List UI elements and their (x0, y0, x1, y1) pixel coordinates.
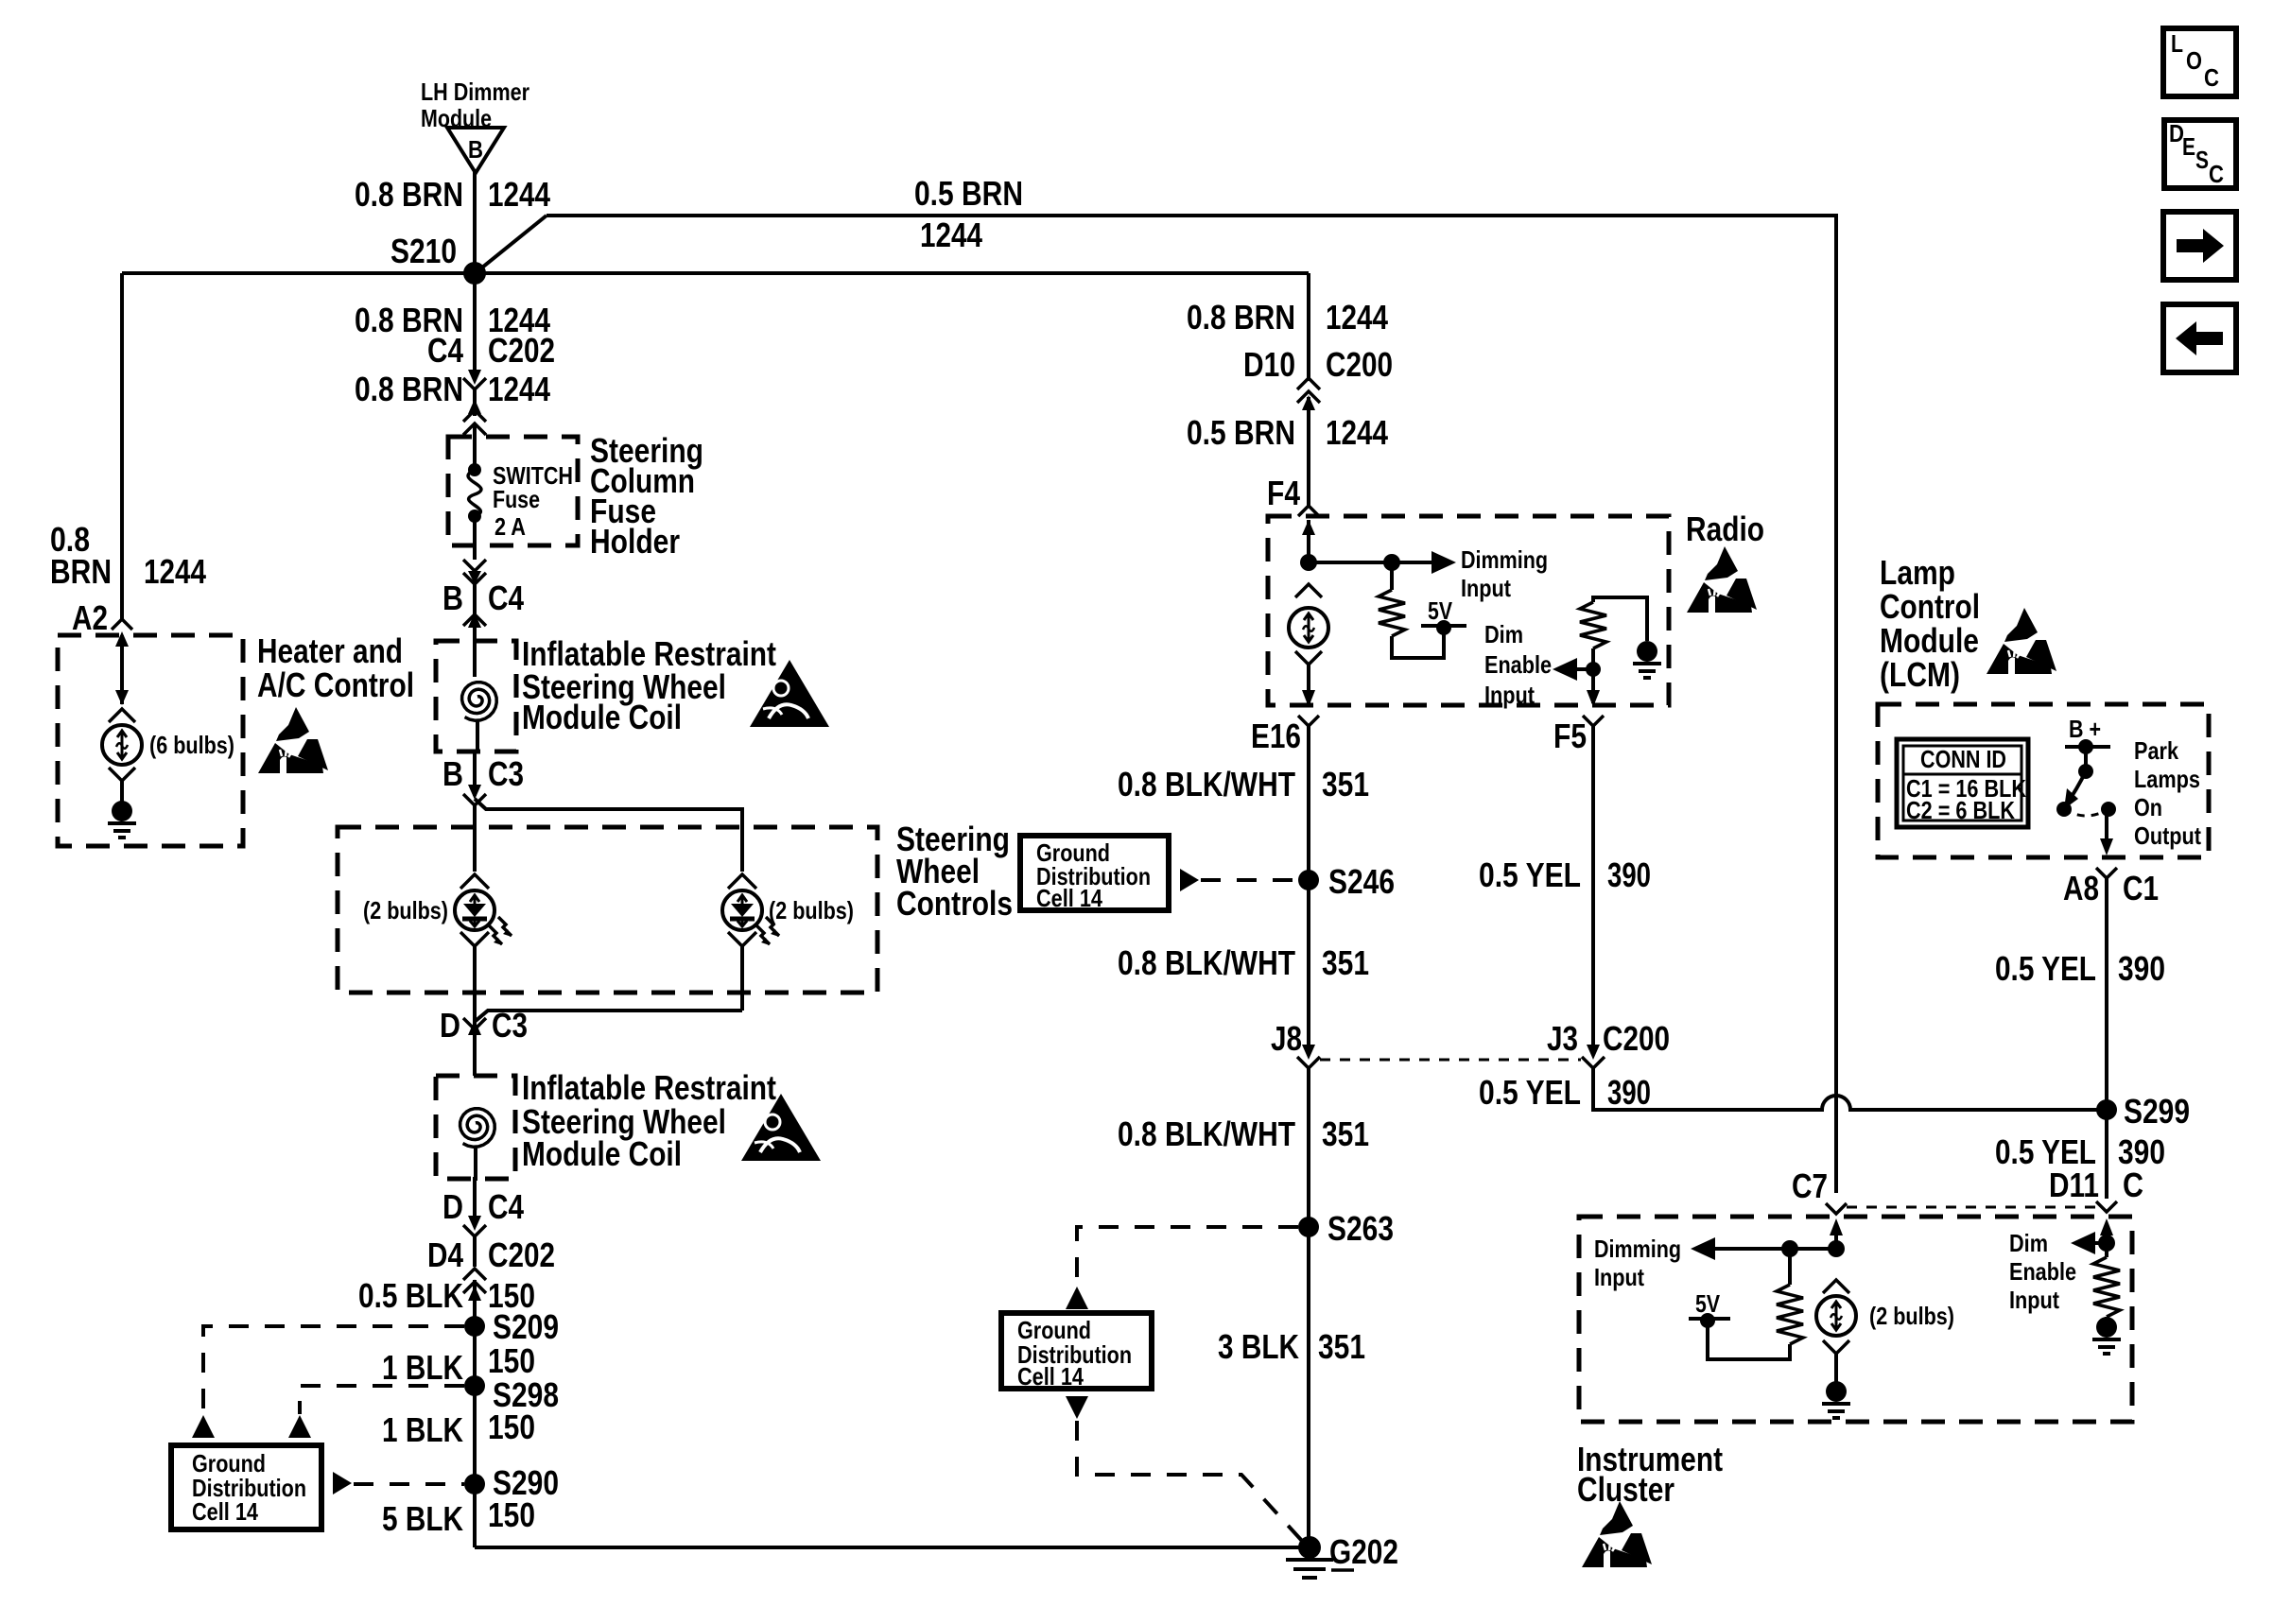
svg-text:B: B (468, 135, 483, 164)
node S290 (464, 1463, 559, 1502)
label 0.5 BRN 1244 (middle) (1187, 413, 1388, 452)
svg-text:D: D (442, 1187, 463, 1226)
svg-text:Lamps: Lamps (2134, 765, 2200, 793)
lamp (6 bulbs) in heater box (102, 690, 234, 803)
lamp right (2 bulbs) (722, 874, 854, 1011)
svg-text:C202: C202 (488, 331, 555, 370)
svg-text:On: On (2134, 793, 2162, 821)
connector J3 / C200 (1547, 1019, 1670, 1068)
connector F4 into radio (1267, 474, 1319, 562)
wire: middle column down from S210 line to radio F4 (1307, 273, 1310, 381)
svg-text:B: B (442, 579, 463, 617)
svg-text:A2: A2 (72, 598, 108, 637)
label 0.8 BLK/WHT 351 (1) (1118, 765, 1369, 803)
label 3 BLK 351 (1218, 1327, 1365, 1366)
svg-text:2 A: 2 A (495, 512, 526, 541)
svg-text:150: 150 (488, 1495, 535, 1534)
svg-text:S299: S299 (2124, 1092, 2190, 1131)
label 0.8 BRN 1244 (top) (355, 175, 550, 214)
dashed lead from S298 to ground distribution (288, 1386, 464, 1438)
connector E16 below radio (1251, 716, 1319, 1049)
svg-text:Dimming: Dimming (1461, 545, 1548, 574)
cluster dimming input arrow (1594, 1235, 1836, 1291)
svg-text:Inflatable Restraint: Inflatable Restraint (522, 1068, 776, 1107)
heater and A/C control (dashed box) (58, 635, 243, 846)
node S210 junction horizontal wire (122, 271, 1309, 275)
svg-text:C3: C3 (492, 1006, 528, 1045)
svg-text:Input: Input (1461, 574, 1511, 602)
label 1 BLK 150 (2) (382, 1408, 535, 1449)
label 0.8 BRN 1244 (middle) (1187, 298, 1388, 337)
connector D / C3 in-line (440, 1006, 528, 1076)
coil spiral 2 (460, 1109, 495, 1148)
svg-text:Enable: Enable (2009, 1257, 2076, 1286)
radio ground (1633, 641, 1661, 678)
svg-text:1244: 1244 (144, 552, 206, 591)
steering column fuse holder (dashed box) (448, 437, 578, 545)
node S210 dot (463, 262, 486, 285)
left arrow box (2163, 304, 2236, 372)
svg-text:Module: Module (421, 104, 492, 132)
connector A2 into heater control (72, 598, 132, 704)
svg-text:L: L (2171, 29, 2183, 58)
svg-text:Control: Control (1880, 587, 1980, 626)
svg-text:1244: 1244 (920, 216, 982, 254)
wire: 0.5 BRN 1244 top line to right then down to C7 (547, 216, 1836, 1193)
svg-text:S246: S246 (1328, 862, 1395, 901)
svg-text:0.5 YEL: 0.5 YEL (1995, 949, 2096, 988)
svg-text:0.8 BRN: 0.8 BRN (355, 370, 463, 408)
ground distribution cell 14 box (middle) (1020, 836, 1169, 912)
cluster pull-up resistor (1708, 1249, 1803, 1359)
svg-text:Enable: Enable (1484, 650, 1552, 679)
svg-text:(2 bulbs): (2 bulbs) (769, 896, 854, 924)
svg-text:B: B (442, 754, 463, 793)
radio 5V supply (1421, 596, 1466, 635)
svg-text:Dim: Dim (2009, 1229, 2048, 1257)
svg-text:Cell 14: Cell 14 (1017, 1362, 1084, 1391)
svg-text:O: O (2186, 46, 2202, 75)
radio dimming input node and arrow (1300, 545, 1548, 602)
label 0.5 BRN 1244 (top right line) (914, 174, 1023, 254)
radio dim enable arrow (1484, 620, 1601, 709)
label Instrument Cluster (1577, 1440, 1723, 1509)
label 0.5 YEL 390 (below S299) (1995, 1132, 2165, 1171)
label 0.5 YEL 390 (F5 branch) (1479, 855, 1651, 894)
dashed connector line C7 to D11 (1847, 1206, 2095, 1209)
svg-text:D4: D4 (427, 1235, 463, 1274)
svg-text:1244: 1244 (1326, 298, 1388, 337)
svg-text:Cell 14: Cell 14 (1036, 884, 1102, 912)
svg-text:3 BLK: 3 BLK (1218, 1327, 1299, 1366)
svg-text:Cluster: Cluster (1577, 1470, 1674, 1509)
B+ supply and park lamps switch (2056, 715, 2116, 855)
svg-text:390: 390 (1607, 1073, 1651, 1112)
svg-text:F4: F4 (1267, 474, 1300, 512)
LOC box (2163, 28, 2236, 96)
svg-text:0.5 BRN: 0.5 BRN (1187, 413, 1295, 452)
svg-text:1 BLK: 1 BLK (382, 1410, 463, 1449)
connector B / C3 in-line (442, 754, 524, 805)
connector B / C4 in-line (442, 579, 524, 643)
wire: bottom run to G202 (475, 1546, 1310, 1549)
svg-text:0.8 BLK/WHT: 0.8 BLK/WHT (1118, 765, 1295, 803)
node S263 (1298, 1209, 1394, 1248)
svg-text:C4: C4 (488, 1187, 524, 1226)
svg-text:Input: Input (2009, 1286, 2059, 1314)
svg-text:0.5 BLK: 0.5 BLK (358, 1276, 463, 1315)
inflatable restraint coil 2 (dashed box) (436, 1076, 515, 1179)
svg-text:S: S (2195, 146, 2209, 174)
label 0.8 BRN 1244 (below S210) (355, 301, 550, 339)
label 1 BLK 150 (382, 1341, 535, 1387)
ESD triangle (cluster) (1582, 1501, 1652, 1567)
connector chevrons into fuse holder (463, 399, 486, 470)
svg-text:1244: 1244 (1326, 413, 1388, 452)
svg-text:1 BLK: 1 BLK (382, 1348, 463, 1387)
svg-text:5V: 5V (1428, 596, 1453, 625)
svg-text:A8: A8 (2063, 869, 2099, 907)
label 0.8 BRN 1244 (below C202) (355, 370, 550, 408)
ground distribution cell 14 box (left) (171, 1445, 321, 1529)
svg-text:C4: C4 (427, 331, 463, 370)
ESD triangle (heater) (258, 707, 328, 773)
label Inflatable Restraint Steering Wheel Module Coil (1) (522, 634, 776, 736)
svg-text:0.8 BRN: 0.8 BRN (1187, 298, 1295, 337)
svg-text:C200: C200 (1603, 1019, 1670, 1058)
radio (dashed box) (1268, 516, 1669, 705)
ground in heater box (108, 801, 136, 838)
svg-text:(2 bulbs): (2 bulbs) (363, 896, 448, 924)
label 0.5 YEL 390 (A8 branch) (1995, 949, 2165, 988)
dashed lead from middle ground distribution to S246 (1180, 869, 1299, 891)
svg-text:351: 351 (1318, 1327, 1365, 1366)
svg-text:C7: C7 (1792, 1166, 1828, 1205)
dashed lead from S263 to middle lower ground distribution (1077, 1227, 1298, 1286)
inflatable restraint coil 1 (dashed box) (436, 641, 516, 752)
cluster 5V supply (1689, 1289, 1730, 1328)
connector D10 / C200 in-line (1243, 345, 1393, 506)
label 0.8 BRN 1244 (left branch) (50, 520, 206, 591)
svg-text:(2 bulbs): (2 bulbs) (1869, 1302, 1954, 1330)
svg-text:0.8 BLK/WHT: 0.8 BLK/WHT (1118, 1114, 1295, 1153)
svg-text:C202: C202 (488, 1235, 555, 1274)
wire: S210 down to C202 connector (473, 273, 477, 373)
svg-text:D11: D11 (2049, 1166, 2099, 1204)
label Steering Wheel Controls (896, 820, 1013, 923)
node S209 (464, 1307, 559, 1346)
svg-text:0.8 BRN: 0.8 BRN (355, 175, 463, 214)
svg-text:C: C (2209, 160, 2224, 188)
DESC box (2164, 119, 2236, 188)
wire: coil 1 to B/C3 (475, 720, 477, 796)
svg-text:C200: C200 (1326, 345, 1393, 384)
wire: diagonal from S210 to 0.5 BRN line (477, 216, 547, 271)
svg-text:Fuse: Fuse (493, 485, 540, 513)
connector D / C4 in-line (442, 1187, 524, 1267)
radio dim enable resistor (1580, 597, 1647, 707)
cluster bulb ground (1822, 1381, 1850, 1418)
svg-text:351: 351 (1322, 765, 1369, 803)
connector chevrons below fuse holder (463, 560, 486, 584)
svg-text:5 BLK: 5 BLK (382, 1499, 463, 1538)
svg-text:0.5 YEL: 0.5 YEL (1479, 855, 1581, 894)
cluster dim enable resistor (2093, 1257, 2120, 1320)
label 5 BLK 150 (382, 1495, 535, 1538)
svg-text:J3: J3 (1547, 1019, 1578, 1058)
cluster entry arrow C7 (1828, 1218, 1845, 1257)
wire: bulbs rejoin to D/C3 (476, 1011, 742, 1021)
svg-text:F5: F5 (1553, 717, 1587, 755)
connector D4 / C202 in-line (427, 1235, 555, 1547)
node S298 (464, 1375, 559, 1414)
label Park Lamps On Output (2134, 736, 2201, 850)
svg-text:Lamp: Lamp (1880, 553, 1955, 592)
cluster dimmer bulb (2 bulbs) (1816, 1280, 1954, 1382)
ground distribution cell 14 box (lower middle) (1001, 1287, 1302, 1541)
svg-text:390: 390 (2118, 949, 2165, 988)
instrument cluster (dashed box) (1579, 1217, 2132, 1422)
svg-text:BRN: BRN (50, 552, 112, 591)
label 0.5 BLK 150 (358, 1276, 535, 1315)
svg-text:Input: Input (1594, 1263, 1644, 1291)
SIR warning triangle 2 (741, 1094, 821, 1161)
svg-text:351: 351 (1322, 943, 1369, 982)
svg-text:Module: Module (1880, 621, 1979, 660)
node S246 (1298, 862, 1395, 901)
svg-text:C4: C4 (488, 579, 524, 617)
dashed lead from S209 to ground distribution (192, 1326, 464, 1438)
ESD triangle (LCM) (1987, 608, 2056, 674)
label 0.5 YEL 390 (below J3) (1479, 1073, 1651, 1112)
label Steering Column Fuse Holder (590, 431, 703, 561)
CONN ID table (1897, 739, 2028, 827)
wire: fuse to B/C4 connector (473, 516, 477, 560)
wire: B/C3 to steering wheel controls (473, 805, 477, 872)
svg-text:LH Dimmer: LH Dimmer (421, 78, 529, 106)
wire: left branch down to A2 (120, 273, 124, 619)
svg-text:1244: 1244 (488, 370, 550, 408)
svg-text:D: D (440, 1006, 460, 1045)
radio dimmer bulb (1289, 584, 1328, 707)
svg-text:Module Coil: Module Coil (522, 698, 682, 736)
svg-text:S263: S263 (1327, 1209, 1394, 1248)
svg-text:G202: G202 (1329, 1532, 1398, 1571)
svg-text:A/C Control: A/C Control (257, 665, 414, 704)
svg-text:Holder: Holder (590, 522, 680, 561)
svg-text:C: C (2123, 1166, 2143, 1204)
cluster dim enable ground (2092, 1317, 2121, 1354)
svg-text:S209: S209 (493, 1307, 559, 1346)
right arrow box (2163, 212, 2236, 280)
SIR warning triangle 1 (750, 660, 829, 727)
wire: main left vertical from LH dimmer triangle down to S210 (473, 172, 477, 273)
wire: J3 down and right to S299 with hop (1593, 1068, 2107, 1110)
fuse SWITCH Fuse 2 A (468, 461, 573, 541)
svg-text:C2 = 6 BLK: C2 = 6 BLK (1906, 796, 2015, 824)
svg-text:S210: S210 (390, 232, 457, 270)
svg-text:150: 150 (488, 1408, 535, 1446)
node S299 (2096, 1092, 2190, 1131)
lamp left (2 bulbs) (363, 874, 512, 1011)
svg-text:Park: Park (2134, 736, 2178, 765)
connector J8 (1271, 1019, 1320, 1547)
node G202 ground (1286, 1532, 1398, 1578)
svg-text:Dim: Dim (1484, 620, 1523, 648)
svg-text:B +: B + (2069, 715, 2101, 743)
svg-text:C: C (2204, 63, 2219, 92)
cluster dim enable entry arrow D11 (2009, 1218, 2115, 1314)
connector C4 / C202 in-line (427, 331, 555, 416)
svg-text:Radio: Radio (1686, 510, 1764, 548)
wire into coil 1 (473, 643, 477, 677)
label 0.8 BLK/WHT 351 (2) (1118, 943, 1369, 982)
steering wheel controls (dashed box) (338, 827, 877, 993)
svg-text:CONN ID: CONN ID (1920, 745, 2006, 773)
connector C7 at instrument cluster (1792, 1166, 1847, 1214)
connector D11 / C at instrument cluster (2049, 1166, 2143, 1212)
svg-text:J8: J8 (1271, 1019, 1302, 1058)
label Inflatable Restraint Steering Wheel Module Coil (2) (522, 1068, 776, 1173)
svg-text:Controls: Controls (896, 884, 1013, 923)
svg-text:E: E (2182, 132, 2195, 161)
label Lamp Control Module (LCM) (1880, 553, 1980, 694)
svg-text:(LCM): (LCM) (1880, 655, 1960, 694)
svg-text:1244: 1244 (488, 175, 550, 214)
svg-text:(6 bulbs): (6 bulbs) (149, 731, 234, 759)
svg-text:390: 390 (1607, 855, 1651, 894)
ESD triangle (radio) (1687, 546, 1757, 613)
svg-text:D10: D10 (1243, 345, 1295, 384)
connector B of LH Dimmer Module (triangle) (421, 78, 529, 173)
svg-text:Heater and: Heater and (257, 631, 403, 670)
wire: branch to right bulb (475, 799, 742, 872)
lamp control module (dashed box) (1878, 704, 2209, 857)
svg-text:Dimming: Dimming (1594, 1235, 1681, 1263)
svg-text:150: 150 (488, 1341, 535, 1380)
wire: coil 2 down to D/C4 (475, 1147, 476, 1225)
connector F5 below radio (1553, 716, 1604, 1049)
svg-text:C1: C1 (2123, 869, 2159, 907)
dashed lead from ground distribution to S290 (333, 1472, 464, 1494)
svg-text:Input: Input (1484, 681, 1535, 709)
svg-text:0.5 BRN: 0.5 BRN (914, 174, 1023, 213)
dashed connector line J8 to J3 (1320, 1059, 1581, 1062)
svg-text:0.5 YEL: 0.5 YEL (1479, 1073, 1581, 1112)
svg-text:Cell 14: Cell 14 (192, 1497, 258, 1526)
svg-text:Module Coil: Module Coil (522, 1134, 682, 1173)
svg-text:Output: Output (2134, 821, 2201, 850)
svg-text:0.8 BLK/WHT: 0.8 BLK/WHT (1118, 943, 1295, 982)
svg-text:C3: C3 (488, 754, 524, 793)
coil spiral 1 (462, 682, 497, 721)
connector A8 / C1 below LCM (2063, 868, 2159, 1199)
svg-text:351: 351 (1322, 1114, 1369, 1153)
label Heater and A/C Control (257, 631, 414, 704)
radio pull-up resistor (1379, 562, 1444, 658)
label 0.8 BLK/WHT 351 (3) (1118, 1114, 1369, 1153)
svg-text:E16: E16 (1251, 717, 1301, 755)
